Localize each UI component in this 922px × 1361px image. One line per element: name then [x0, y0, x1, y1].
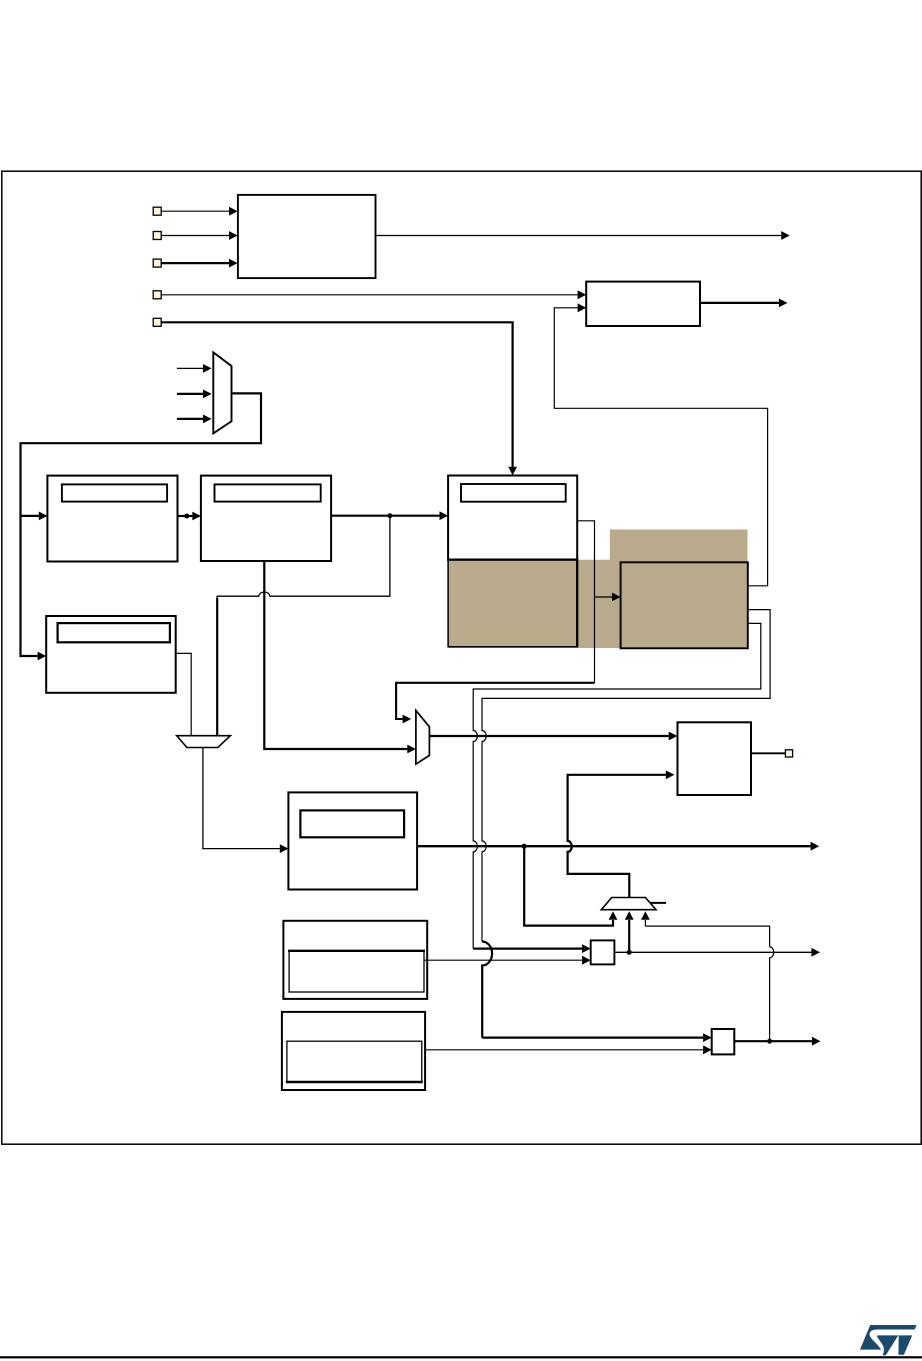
- block E auto-reload with register plate: [288, 792, 417, 889]
- pin OC1 square: [785, 750, 792, 757]
- counter lower outline over tan: [448, 560, 577, 647]
- wire mux M1 input 2: [177, 393, 203, 395]
- tan shadow region behind capture/compare blocks: [448, 530, 747, 649]
- wire branch from dot down to trapezoid T3 input 1: [524, 846, 613, 925]
- wire T1 output to block E: [203, 748, 280, 849]
- pin TI3 square: [153, 259, 161, 267]
- wire B output to counter C with junction dot: [331, 515, 439, 517]
- wire mux M1 input 1: [177, 367, 203, 369]
- block F output control: [678, 722, 752, 795]
- wire T3 control stub: [650, 902, 666, 904]
- wire pin3 to trigger block: [161, 262, 229, 264]
- bottom page rule: [0, 1356, 922, 1358]
- wire H output with dot and arrow: [734, 1040, 812, 1042]
- trapezoid T1: [177, 736, 231, 748]
- wire G output with dot and arrow: [614, 951, 811, 953]
- wire T3 output up into block F lower input: [568, 775, 666, 898]
- block G dead-time generator: [591, 940, 615, 964]
- wire counter to capture compare block: [577, 521, 594, 683]
- mux M2: [416, 710, 430, 764]
- wire pin2 to trigger block: [161, 235, 229, 237]
- wire mux M1 input 3: [177, 418, 203, 420]
- wire arrow into capture block CC: [595, 596, 613, 598]
- block C counter with register plate: [448, 476, 577, 560]
- wire U2 output: [700, 302, 779, 304]
- block U1 trigger controller: [238, 195, 376, 278]
- ST logo: [860, 1325, 917, 1355]
- wire branch from B output dot down to trapezoid T1: [217, 516, 390, 736]
- wire P into H upper input (thick tail): [482, 1036, 703, 1038]
- wire pin1 to trigger block: [161, 210, 229, 212]
- wire R13 output to H lower input: [425, 1049, 703, 1051]
- trapezoid T3 output stage: [601, 898, 656, 910]
- wire T3 input 3 from H output dot: [645, 926, 773, 1041]
- wire Q into G upper input (thick tail): [473, 947, 582, 949]
- wire pin5 down into counter: [161, 322, 512, 467]
- wire F output to pin: [751, 752, 785, 754]
- wire D output to trapezoid T1: [176, 653, 192, 735]
- wire CC right to M2 lower path P: [482, 610, 770, 942]
- wire branch into block A: [21, 515, 39, 517]
- pin TI4 square: [153, 291, 161, 299]
- wire branch dot up to T3 input 2: [628, 920, 630, 952]
- mux M1 internal clock selector: [213, 352, 231, 433]
- block CC capture/compare (tan): [621, 562, 748, 648]
- pin TI5 square: [153, 318, 161, 326]
- block R13 capture/compare preload lower: [282, 1012, 425, 1090]
- figure frame: [2, 171, 921, 1144]
- block A prescaler with register plate: [47, 476, 177, 562]
- block U2 input stage: [586, 282, 700, 326]
- wire R12 output to G lower input: [424, 959, 582, 961]
- wire M2 output to output-mode block F: [429, 735, 668, 737]
- block R12 capture/compare preload upper: [283, 921, 427, 999]
- pin TI1 square: [153, 207, 161, 215]
- wire CC right path Q: [473, 623, 761, 948]
- wire TRGO output: [376, 235, 782, 237]
- wire E long output line with junction dot: [417, 845, 810, 847]
- wire from counter chain to mux M2 upper input: [396, 683, 594, 719]
- wire link A to B with junction dot: [178, 515, 193, 517]
- wire pin4 to input filter block: [161, 294, 577, 296]
- block H complementary output box: [712, 1029, 735, 1054]
- wire from capture block up into U2: [554, 308, 767, 586]
- wire B bottom output down: [264, 561, 407, 749]
- pin TI2 square: [153, 232, 161, 240]
- wire mux M1 output to prescaler chain: [21, 393, 262, 656]
- block B prescaler counter with register plate: [201, 476, 331, 561]
- block D repetition/slave with register plate: [46, 616, 176, 693]
